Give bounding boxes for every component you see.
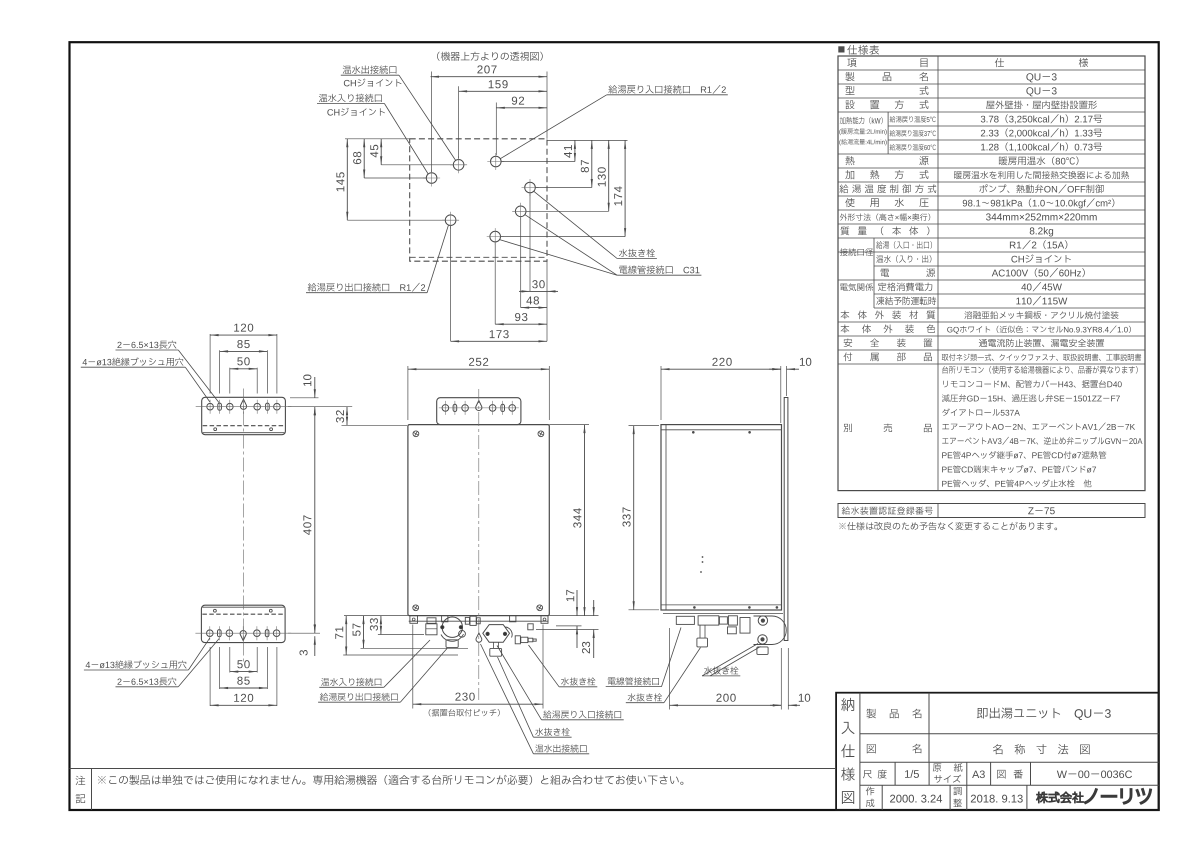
dimension 85 (lower bracket) [220, 687, 268, 689]
title block outer box [836, 693, 1159, 810]
label: conduit port (side) [608, 678, 616, 686]
front view 230 extension lines [412, 625, 414, 709]
title block: drawing number cell [997, 770, 1005, 779]
dimension 85 (upper bracket) [220, 350, 268, 352]
title block: drawing name row [867, 744, 876, 753]
row: weight [841, 226, 850, 235]
top view: hot-water-return inlet port R1/2 [491, 156, 502, 167]
top view: conduit connection port C31 (upper) [515, 206, 526, 217]
wall bracket detail: upper plate [202, 397, 286, 434]
table header row [847, 58, 856, 67]
label: drain plug (front right) [561, 677, 569, 685]
dimension 230 (pedestal mounting pitch) [413, 703, 543, 705]
top view right dim reference lines [547, 139, 628, 141]
dimension 200 (bottom fitting span) [670, 704, 782, 706]
label: return outlet port (front) [320, 693, 328, 701]
dimension 174 (top view right) [624, 140, 626, 236]
dimension 45 (top view left) [380, 139, 382, 165]
dimension 207 (top view) [431, 76, 548, 78]
front view: left valve assembly [427, 618, 436, 624]
group label: electrical [840, 284, 847, 291]
side view: front lip inner line [665, 425, 667, 610]
row: cabinet color [841, 324, 850, 333]
dimension 145 (top view left) [346, 139, 348, 220]
dimension 93 (top view bottom) [495, 323, 547, 325]
ref line lower bracket holes [288, 632, 320, 634]
side view: bottom screws [693, 606, 696, 609]
table footnote [839, 523, 846, 530]
side view: bottom fittings [663, 613, 783, 615]
front view 252 extension lines [407, 366, 409, 420]
top view: drain plug (top view) [525, 182, 536, 193]
row: heating water conn [876, 255, 883, 263]
top view bottom dim extension lines [450, 226, 452, 341]
dimension 68 (top view left) [363, 139, 365, 178]
side view: interior marks [702, 556, 704, 558]
bracket vertical centerline (dash-dot) [243, 389, 245, 663]
row: capacity at 60C [890, 144, 895, 151]
dimension 10 (wall plate offset bottom) [770, 704, 781, 706]
front view right ref lines [549, 424, 589, 426]
dimension 173 (top view bottom) [451, 340, 547, 342]
title block: scale cell [863, 770, 872, 778]
dimension 33 (hot-water-in level) [380, 616, 382, 635]
dimension 252 (front width) [408, 368, 549, 370]
side view 220/10 extension lines [660, 366, 662, 420]
dimension 48 (top view bottom) [521, 307, 547, 309]
side view: top screws [692, 431, 695, 434]
label: 4-dia13 insulating bush holes (lower) [86, 662, 91, 668]
row: cabinet material [841, 310, 850, 319]
dimension 57 (return-out level) [363, 616, 365, 649]
side view: top edge inner line [661, 429, 782, 431]
wall bracket detail: lower plate [201, 605, 285, 642]
label: return inlet port (front) [543, 710, 551, 718]
row: product name [845, 72, 854, 81]
group label: connection sizes [840, 248, 848, 256]
front view: hanger bracket holes [442, 405, 449, 412]
label: hot-water out port (front) [535, 744, 543, 752]
label: hot-water in port [319, 94, 327, 102]
front view: top hanger bracket [437, 398, 521, 425]
title block: created cell [866, 787, 875, 796]
dimension 17 (lip offset) [576, 590, 578, 616]
row: power supply [881, 269, 889, 277]
row: freeze protection power [876, 297, 884, 306]
front view: base lip and feet tabs [409, 620, 549, 622]
row: heating method [845, 170, 854, 179]
top view: hot-water in port (CH joint) [426, 173, 437, 184]
dimension 71 (lowest port level) [345, 616, 347, 655]
dimension 159 (top view) [459, 90, 547, 92]
label: drain plug (side 2) [628, 693, 636, 701]
dimension 41 (top view right) [574, 140, 576, 161]
label: 4-dia13 insulating bush holes (upper) [83, 359, 88, 365]
front view: cabinet body [408, 425, 549, 616]
label: conduit port C31 [619, 266, 627, 274]
side view: cabinet body [661, 425, 782, 610]
spec table grid [838, 56, 1145, 491]
bracket lower dim extension lines [209, 647, 211, 706]
dimension 337 (side height) [633, 426, 635, 610]
row: optional items list [942, 366, 948, 374]
dimension 344 (front height) [584, 425, 586, 616]
top view: conduit connection port C31 (lower) [490, 231, 501, 242]
label: hot-water out port [343, 66, 351, 74]
label: 2-6.5x13 slotted holes (lower) [117, 679, 121, 685]
row: capacity at 37C [890, 130, 895, 137]
top view: hot-water-return outlet port R1/2 [445, 215, 456, 226]
title block: delivery-spec-drawing vertical label [841, 698, 854, 711]
title block: revised cell [953, 787, 961, 795]
dimension 87 (top view right) [591, 140, 593, 187]
row: heat source [845, 156, 854, 165]
label: hot-water in port (front) [321, 678, 329, 686]
top view dim extension lines (top) [431, 72, 433, 173]
dimension 30 (top view bottom) [530, 290, 547, 292]
front view: vertical centerline (dash-dot) [478, 389, 480, 700]
dimension 407 (bracket hole pitch) [314, 407, 316, 634]
row: hot water supply conn [876, 241, 882, 249]
dimension 10 (bracket top to holes) [314, 377, 316, 398]
certification row box [838, 504, 1145, 518]
row: installation type [845, 100, 854, 109]
dimension 50 (upper bracket) [230, 368, 257, 370]
row: heating capacity group label [840, 117, 846, 124]
front view left ref lines [344, 615, 408, 617]
dimension 220 (side depth) [661, 368, 781, 370]
dimension 92 (top view) [496, 107, 547, 109]
note label [76, 776, 86, 785]
row: safety devices [844, 338, 852, 347]
row: external dimensions [840, 214, 847, 221]
dimension 120 (lower bracket) [210, 704, 277, 706]
top view left dim reference lines [345, 138, 410, 140]
top view: hot-water out port (CH joint) [453, 160, 464, 171]
row: model [845, 86, 854, 95]
row: water device certification [842, 507, 850, 515]
front view: center fittings and outlet [465, 617, 469, 624]
label: drain plug (front center) [535, 728, 543, 736]
row: temperature control [839, 184, 848, 193]
label: drain plugs (side) [704, 667, 712, 675]
dimension 3 (lower bracket offset) [314, 624, 316, 633]
side view: wall mounting plate [784, 398, 788, 641]
label: CH joint (1) [344, 80, 350, 87]
title block grid [859, 693, 861, 810]
dimension 120 (upper bracket) [210, 334, 277, 336]
bracket ref lines for 10/32 dims [290, 397, 319, 399]
dimension 10 (wall plate offset top) [769, 368, 781, 370]
side view 337 ref lines [629, 425, 660, 427]
row: capacity at 5C [890, 116, 896, 123]
front view: corner screws [413, 431, 419, 437]
caption: view-from-above note [437, 52, 440, 61]
side view: bottom edge inner line [661, 604, 782, 606]
title block: Noritz company logo [1036, 792, 1083, 803]
label: hot-water-return outlet R1/2 [308, 283, 317, 291]
caption: pedestal mounting pitch [429, 709, 431, 716]
label: CH joint (2) [327, 109, 333, 116]
dimension 130 (top view right) [608, 140, 610, 211]
top view: inner dashed line near bottom [410, 256, 547, 258]
front view: right valve assembly [483, 625, 510, 643]
note box lines [70, 768, 837, 770]
note text [98, 776, 106, 784]
label: 2-6.5x13 slotted holes (upper) [117, 342, 121, 348]
label: drain plug (top view) [619, 249, 627, 257]
bracket upper dim extension lines [209, 334, 211, 394]
side view 200/10 extension lines [669, 628, 671, 710]
title block: paper size cell [933, 764, 941, 772]
label: hot-water-return inlet R1/2 [608, 85, 617, 93]
dimension 50 (lower bracket) [230, 671, 257, 673]
dimension 32 (holes to cabinet top) [346, 407, 348, 426]
row: power consumption [878, 283, 886, 291]
title block: product name row [866, 709, 876, 719]
row: accessories [843, 352, 852, 361]
spec table heading [838, 46, 844, 52]
dimension 23 (drain level) [593, 600, 595, 616]
row: working pressure [845, 198, 854, 207]
top view: unit outline (dashed) [410, 139, 547, 261]
